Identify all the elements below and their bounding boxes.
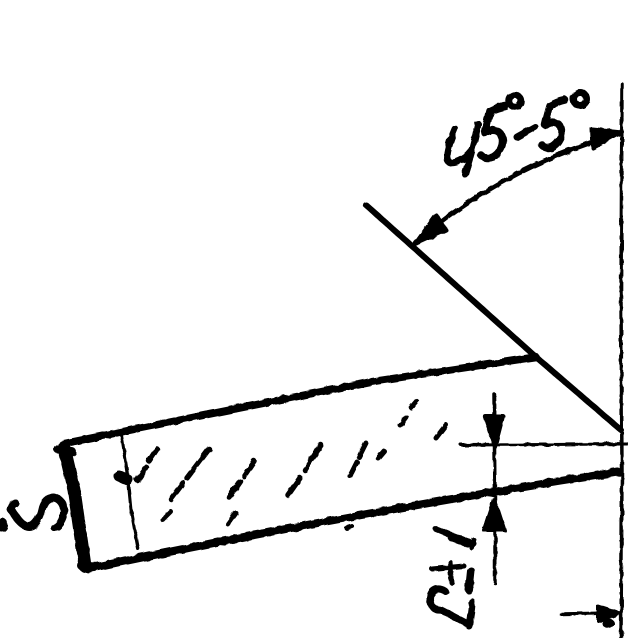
arc arrowhead right (at joint line)	[592, 129, 622, 148]
hatch dash 5	[350, 443, 366, 476]
ink blot at left image edge	[0, 518, 8, 532]
end cap bottom join	[82, 566, 95, 567]
degree sign (second)	[574, 93, 587, 106]
hatch speck c	[346, 526, 352, 528]
label digit 2	[430, 589, 472, 626]
minus dash	[517, 127, 535, 137]
root gap extension line (horizontal)	[461, 444, 627, 445]
wire: vertical joint line (plate end face axis)	[621, 84, 622, 638]
end cap top blob	[58, 449, 72, 452]
thin inner line near left end	[121, 432, 138, 549]
label 45deg-5deg : digit 4	[447, 124, 478, 174]
hatch dash 7	[436, 425, 446, 438]
label plus-minus	[432, 566, 464, 569]
lower arrow blob	[602, 618, 614, 628]
hatch dash 6	[378, 451, 384, 458]
dim arrow blob	[486, 512, 502, 532]
hatch dash 2b	[163, 512, 171, 520]
label digit 5 (second)	[541, 100, 565, 148]
hatch dash 2	[171, 449, 209, 499]
angle dimension arc leader	[416, 133, 621, 243]
hatch speck b	[411, 401, 417, 408]
hatch speck d	[228, 513, 236, 524]
plate bottom edge	[87, 472, 618, 569]
plate left end cap	[64, 447, 85, 566]
lower dimension arrow line (cropped)	[561, 613, 614, 614]
hatch dash 1	[137, 449, 157, 480]
label S (plate thickness)	[11, 498, 64, 528]
wire: bevel edge line 45deg	[366, 205, 621, 430]
knot blob on thin line	[119, 476, 128, 480]
plate top edge	[62, 357, 536, 444]
dim arrowhead up	[484, 499, 504, 530]
lower arrowhead right	[598, 606, 620, 621]
degree sign (first)	[509, 95, 521, 107]
label 2+-1 : digit 1	[436, 529, 474, 544]
dimension line vertical 2+-1	[494, 394, 495, 583]
dim arrowhead down	[485, 416, 503, 447]
label digit 5 (first)	[481, 106, 505, 158]
hatch dash 3	[229, 461, 254, 497]
hatch dash 4	[288, 445, 321, 495]
arc arrowhead left (at bevel line)	[415, 215, 446, 244]
hatch speck a	[400, 417, 406, 425]
